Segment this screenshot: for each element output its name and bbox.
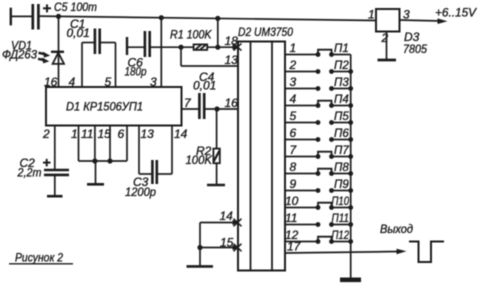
pin 18 label [225, 34, 239, 48]
label 180p [125, 65, 147, 79]
svg-text:7: 7 [290, 143, 298, 157]
label C2 [20, 156, 36, 170]
svg-text:2: 2 [289, 58, 297, 72]
svg-text:П6: П6 [334, 128, 349, 140]
node bus row 9 [348, 188, 353, 193]
svg-text:П4: П4 [334, 94, 349, 106]
node bus row 11 [348, 222, 353, 227]
node bus row 6 [348, 137, 353, 142]
label 2,2m [17, 166, 42, 180]
label П6 [334, 128, 349, 140]
D2 pin 7 wire [285, 156, 318, 158]
svg-text:6: 6 [290, 126, 297, 140]
node C4/R2 [214, 106, 219, 111]
label D3 [404, 30, 420, 44]
svg-text:7: 7 [184, 96, 192, 110]
capacitor C2 [43, 159, 69, 196]
wire pin 13 to C3 [139, 126, 152, 175]
node: rail junction to pin3 [159, 15, 164, 20]
svg-text:П2: П2 [334, 60, 349, 72]
capacitor C3 [152, 160, 172, 184]
D2 pin 4 wire [285, 105, 318, 107]
D2 pin 9 wire [285, 190, 318, 192]
svg-text:11: 11 [285, 211, 297, 225]
svg-text:16: 16 [44, 75, 58, 89]
capacitor C6 with open terminal [127, 31, 161, 57]
switch П10 [316, 203, 351, 210]
svg-text:4: 4 [290, 92, 297, 106]
svg-text:15: 15 [220, 236, 234, 250]
wire pin 2 to C2 [54, 126, 56, 170]
D2 pin 8 wire [285, 173, 318, 175]
label П4 [334, 94, 349, 106]
label 0,01 [67, 26, 90, 40]
label 7805 [403, 42, 427, 56]
pin 14 label left [220, 209, 234, 223]
pin 14 label bottom [174, 127, 188, 141]
svg-text:+6..15V: +6..15V [435, 6, 477, 20]
input terminal [11, 8, 32, 26]
svg-text:180p: 180p [125, 65, 147, 79]
svg-text:16: 16 [225, 96, 239, 110]
D2 pin 11 wire [285, 224, 318, 226]
svg-text:6: 6 [118, 127, 125, 141]
wires pins 1,11,15,6 to common bus [79, 126, 128, 162]
node bus row 8 [348, 171, 353, 176]
node bus 11 [92, 158, 97, 163]
pin 18 arrow [233, 43, 242, 50]
node: rail junction to VD1 [56, 14, 61, 19]
label C3 [133, 175, 149, 189]
svg-text:7805: 7805 [403, 42, 427, 56]
pin 11 label [285, 211, 297, 225]
svg-text:18: 18 [225, 34, 239, 48]
label VD1 [11, 39, 32, 53]
D3 pin2 label [381, 31, 389, 45]
node bus 15 [107, 158, 112, 163]
node R1 left [178, 45, 183, 50]
pin 2 label [289, 58, 297, 72]
svg-text:Рисунок 2: Рисунок 2 [15, 251, 63, 265]
svg-text:2,2m: 2,2m [17, 166, 42, 180]
label R1 100K [170, 28, 212, 42]
label П7 [334, 145, 349, 157]
wire pin 13 loop [181, 47, 238, 66]
wire D2 pins 14,15 [200, 219, 242, 266]
D2 pin 10 wire [285, 207, 318, 209]
switch П6 [316, 137, 351, 142]
label C5 100m [54, 0, 97, 14]
IC D2 [238, 42, 285, 271]
pin 10 label [285, 194, 299, 208]
wire R1 right to pin 18 [207, 46, 233, 48]
svg-text:ФД263: ФД263 [2, 48, 37, 62]
label R2 [196, 144, 212, 158]
pin 7 label [290, 143, 298, 157]
svg-text:1: 1 [368, 8, 375, 22]
D2 pin 5 wire [285, 122, 318, 124]
svg-text:Выход: Выход [380, 224, 413, 236]
pin 1 label [290, 41, 297, 55]
switch П3 [316, 86, 351, 91]
pin 4 label [69, 75, 76, 89]
svg-text:14: 14 [174, 127, 188, 141]
label 1200p [125, 185, 156, 199]
node bus row 3 [348, 86, 353, 91]
resistor R1 [194, 44, 208, 50]
svg-text:14: 14 [220, 209, 234, 223]
photodiode VD1 [38, 52, 64, 87]
D2 pin 2 wire [285, 71, 318, 73]
label 0,01 [193, 79, 216, 93]
svg-text:П1: П1 [334, 43, 349, 55]
label П12 [332, 230, 350, 242]
svg-text:D1 КР1506УП1: D1 КР1506УП1 [66, 100, 143, 114]
svg-text:13: 13 [225, 53, 239, 67]
svg-text:1: 1 [71, 127, 78, 141]
svg-text:1200p: 1200p [125, 185, 156, 199]
svg-text:C5 100m: C5 100m [54, 0, 97, 14]
svg-text:П8: П8 [334, 162, 349, 174]
capacitor C4 [199, 93, 238, 119]
svg-text:10: 10 [285, 194, 299, 208]
label C4 [199, 70, 215, 84]
caption Рисунок 2 [9, 251, 73, 265]
capacitor C5 [33, 4, 51, 30]
switch П2 [316, 69, 351, 74]
svg-text:15: 15 [98, 127, 112, 141]
pin 13 label [225, 53, 239, 67]
switch П12 [316, 237, 351, 244]
label Выход [380, 224, 413, 236]
pin 6 label [118, 127, 125, 141]
pin 5 label [290, 109, 297, 123]
wire C1 to pin 5 [101, 43, 116, 88]
pin 3 label [150, 75, 157, 89]
D3 pin3 label [403, 8, 410, 22]
node bus row 7 [348, 154, 353, 159]
svg-text:0,01: 0,01 [67, 26, 90, 40]
pin 11 label [81, 127, 93, 141]
svg-text:R1 100K: R1 100K [170, 28, 212, 42]
pin 12 label [285, 228, 299, 242]
node bus row 2 [348, 69, 353, 74]
pin 2 label [42, 127, 50, 141]
svg-text:П10: П10 [332, 196, 350, 208]
pin 17 output wire [285, 249, 407, 255]
svg-text:П11: П11 [332, 213, 350, 225]
switch П5 [316, 120, 351, 125]
svg-text:П9: П9 [334, 179, 349, 191]
svg-text:П3: П3 [334, 77, 349, 89]
svg-text:13: 13 [141, 127, 155, 141]
node bus row 10 [348, 205, 353, 210]
svg-text:D2 UM3750: D2 UM3750 [238, 27, 294, 39]
wire node to rail [217, 18, 219, 47]
pin 3 label [290, 75, 297, 89]
D3 pin1 label [368, 8, 375, 22]
svg-text:П5: П5 [334, 111, 349, 123]
D3 ground [378, 32, 397, 61]
node: rail junction to R1 [215, 16, 220, 21]
label П8 [334, 162, 349, 174]
pin 13 label bottom [141, 127, 155, 141]
D2 pin 6 wire [285, 139, 318, 141]
svg-text:1: 1 [290, 41, 297, 55]
svg-text:3: 3 [290, 75, 297, 89]
pin 8 label [290, 160, 297, 174]
capacitor C1 [95, 29, 100, 55]
pin 16 label right [225, 96, 239, 110]
label П10 [332, 196, 350, 208]
wire top rail [38, 16, 376, 20]
IC D1 [46, 87, 182, 126]
switch П11 [316, 222, 351, 227]
switch bus right [350, 55, 352, 278]
D2 pin 1 wire [285, 54, 318, 56]
label П5 [334, 111, 349, 123]
pin 17 label [287, 240, 302, 254]
pin 15 label left [220, 236, 234, 250]
wire rail to photodiode [58, 16, 60, 52]
node R1 right [215, 45, 220, 50]
switch П7 [316, 152, 351, 159]
svg-text:0,01: 0,01 [193, 79, 216, 93]
svg-text:9: 9 [290, 177, 297, 191]
node bus row 5 [348, 120, 353, 125]
svg-text:5: 5 [105, 75, 112, 89]
label C6 [128, 56, 144, 70]
switch П4 [316, 101, 351, 108]
label C1 [70, 17, 85, 31]
wire pin 7 [182, 108, 199, 110]
switch П9 [316, 188, 351, 193]
svg-text:П7: П7 [334, 145, 349, 157]
svg-text:3: 3 [150, 75, 157, 89]
switch П8 [316, 169, 351, 176]
ground for 14/15 [187, 265, 214, 268]
wire C6 to R1 node [161, 46, 193, 48]
svg-text:8: 8 [290, 160, 297, 174]
label П9 [334, 179, 349, 191]
node 14/15 stem [197, 245, 202, 250]
D2 pin 3 wire [285, 88, 318, 90]
node bus row 12 [348, 239, 353, 244]
pin 16 label [44, 75, 58, 89]
D2 pin 12 wire [285, 241, 318, 243]
pin 4 label [290, 92, 297, 106]
resistor R2 [207, 109, 225, 185]
wire pin 3 vertical [160, 18, 162, 87]
ground bus [340, 278, 361, 283]
pin 9 label [290, 177, 297, 191]
pin 1 label [71, 127, 78, 141]
output waveform [409, 242, 444, 263]
svg-text:5: 5 [290, 109, 297, 123]
label D2 UM3750 [238, 27, 294, 39]
label П2 [334, 60, 349, 72]
ground stem for bus [87, 161, 104, 184]
regulator D3 [376, 9, 400, 32]
node bus row 4 [348, 103, 353, 108]
wire pin 14 to C3 [171, 126, 173, 175]
svg-text:4: 4 [69, 75, 76, 89]
pin 7 label [184, 96, 192, 110]
output +V wire [400, 18, 448, 24]
label П1 [334, 43, 349, 55]
label 100K [186, 153, 213, 167]
label П11 [332, 213, 350, 225]
switch П1 [316, 50, 351, 57]
svg-text:100K: 100K [186, 153, 213, 167]
label +6..15V [435, 6, 477, 20]
wire pin 4 [82, 43, 94, 88]
svg-text:П12: П12 [332, 230, 350, 242]
svg-text:2: 2 [42, 127, 50, 141]
svg-text:11: 11 [81, 127, 93, 141]
pin 5 label [105, 75, 112, 89]
svg-text:12: 12 [285, 228, 299, 242]
label ФД263 [2, 48, 37, 62]
label П3 [334, 77, 349, 89]
pin 6 label [290, 126, 297, 140]
pin 15 label [98, 127, 112, 141]
